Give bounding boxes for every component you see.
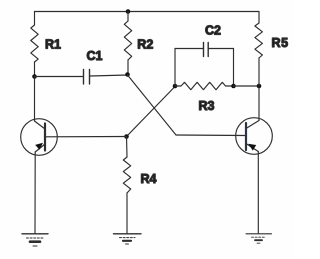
transistor Q2 collector diagonal: [246, 121, 259, 129]
node: R2 / C1 / cross-coupling junction: [125, 72, 130, 77]
node: Q1 base / R4 junction: [124, 134, 129, 139]
svg-text:R5: R5: [272, 36, 289, 50]
wire: cross-coupling diagonal from Q1 base node to R3/C2 left: [127, 87, 175, 137]
node: R3/C2 left junction: [173, 84, 178, 89]
wire: Q1 collector vertical: [34, 77, 36, 122]
node: junction top rail / R2: [126, 9, 131, 14]
node: R1 / C1 / Q1 collector junction: [32, 74, 37, 79]
resistor R5: [255, 23, 263, 58]
capacitor C2 plate right: [207, 43, 209, 57]
wire: R2 top lead: [127, 12, 129, 22]
svg-text:R1: R1: [45, 38, 61, 52]
wire: R3 right to R5/collector node: [234, 85, 260, 87]
capacitor C2 plate left: [203, 43, 205, 57]
capacitor C1 plate right: [89, 70, 91, 85]
resistor R3: [175, 82, 234, 89]
transistor Q1 base bar: [44, 124, 46, 151]
wire: right rail drop from top rail to R5: [258, 12, 260, 24]
svg-text:R2: R2: [137, 38, 153, 52]
ground: left (Q1 emitter): [22, 234, 48, 246]
transistor Q2 circle: [236, 118, 273, 155]
wire: Q1 emitter vertical: [34, 152, 36, 233]
transistor Q2 emitter arrow (PNP): [248, 144, 256, 151]
svg-text:R4: R4: [141, 172, 157, 186]
svg-text:C1: C1: [87, 49, 103, 63]
wire: R2 bottom lead: [127, 60, 129, 75]
wire: top rail horizontal: [35, 11, 260, 13]
transistor Q2 base bar: [245, 123, 247, 150]
transistor Q1 emitter diagonal: [35, 144, 45, 152]
transistor Q1 circle: [21, 119, 58, 156]
wire: R5 bottom lead: [258, 58, 260, 86]
wire: Q2 emitter vertical: [257, 152, 259, 234]
transistor Q1 collector diagonal: [35, 121, 46, 129]
ground: middle (R4): [114, 234, 142, 244]
ground: right (Q2 emitter): [246, 234, 272, 243]
node: R5 / Q2 collector junction: [257, 84, 262, 89]
svg-text:R3: R3: [199, 99, 215, 113]
wire: C2 left riser: [174, 49, 176, 87]
transistor Q2 emitter diagonal: [246, 144, 258, 152]
svg-text:C2: C2: [205, 24, 221, 38]
capacitor C1 plate left: [83, 70, 85, 85]
wire: C1 right lead: [90, 75, 128, 76]
wire: cross-coupling diagonal from R2 node to Q2 base: [128, 75, 177, 135]
wire: Q2 collector vertical: [258, 86, 260, 121]
wire: C1 left lead: [35, 76, 84, 78]
wire: R4 top lead: [126, 137, 129, 158]
resistor R4: [123, 157, 130, 193]
wire: left rail drop from top rail to R1: [34, 12, 36, 26]
resistor R1: [31, 25, 38, 62]
resistor R2: [124, 21, 131, 60]
wire: R4 bottom lead: [126, 193, 128, 233]
wire: Q2 base horizontal: [176, 134, 246, 137]
wire: Q1 base horizontal: [45, 136, 127, 138]
transistor Q1 emitter arrow (PNP): [35, 143, 43, 150]
wire: C2 top left lead: [175, 48, 203, 50]
wire: R1 bottom lead: [34, 62, 36, 77]
node: R3/C2 right junction: [231, 84, 236, 89]
wire: C2 right riser: [233, 49, 235, 87]
wire: C2 top right lead: [209, 48, 234, 50]
